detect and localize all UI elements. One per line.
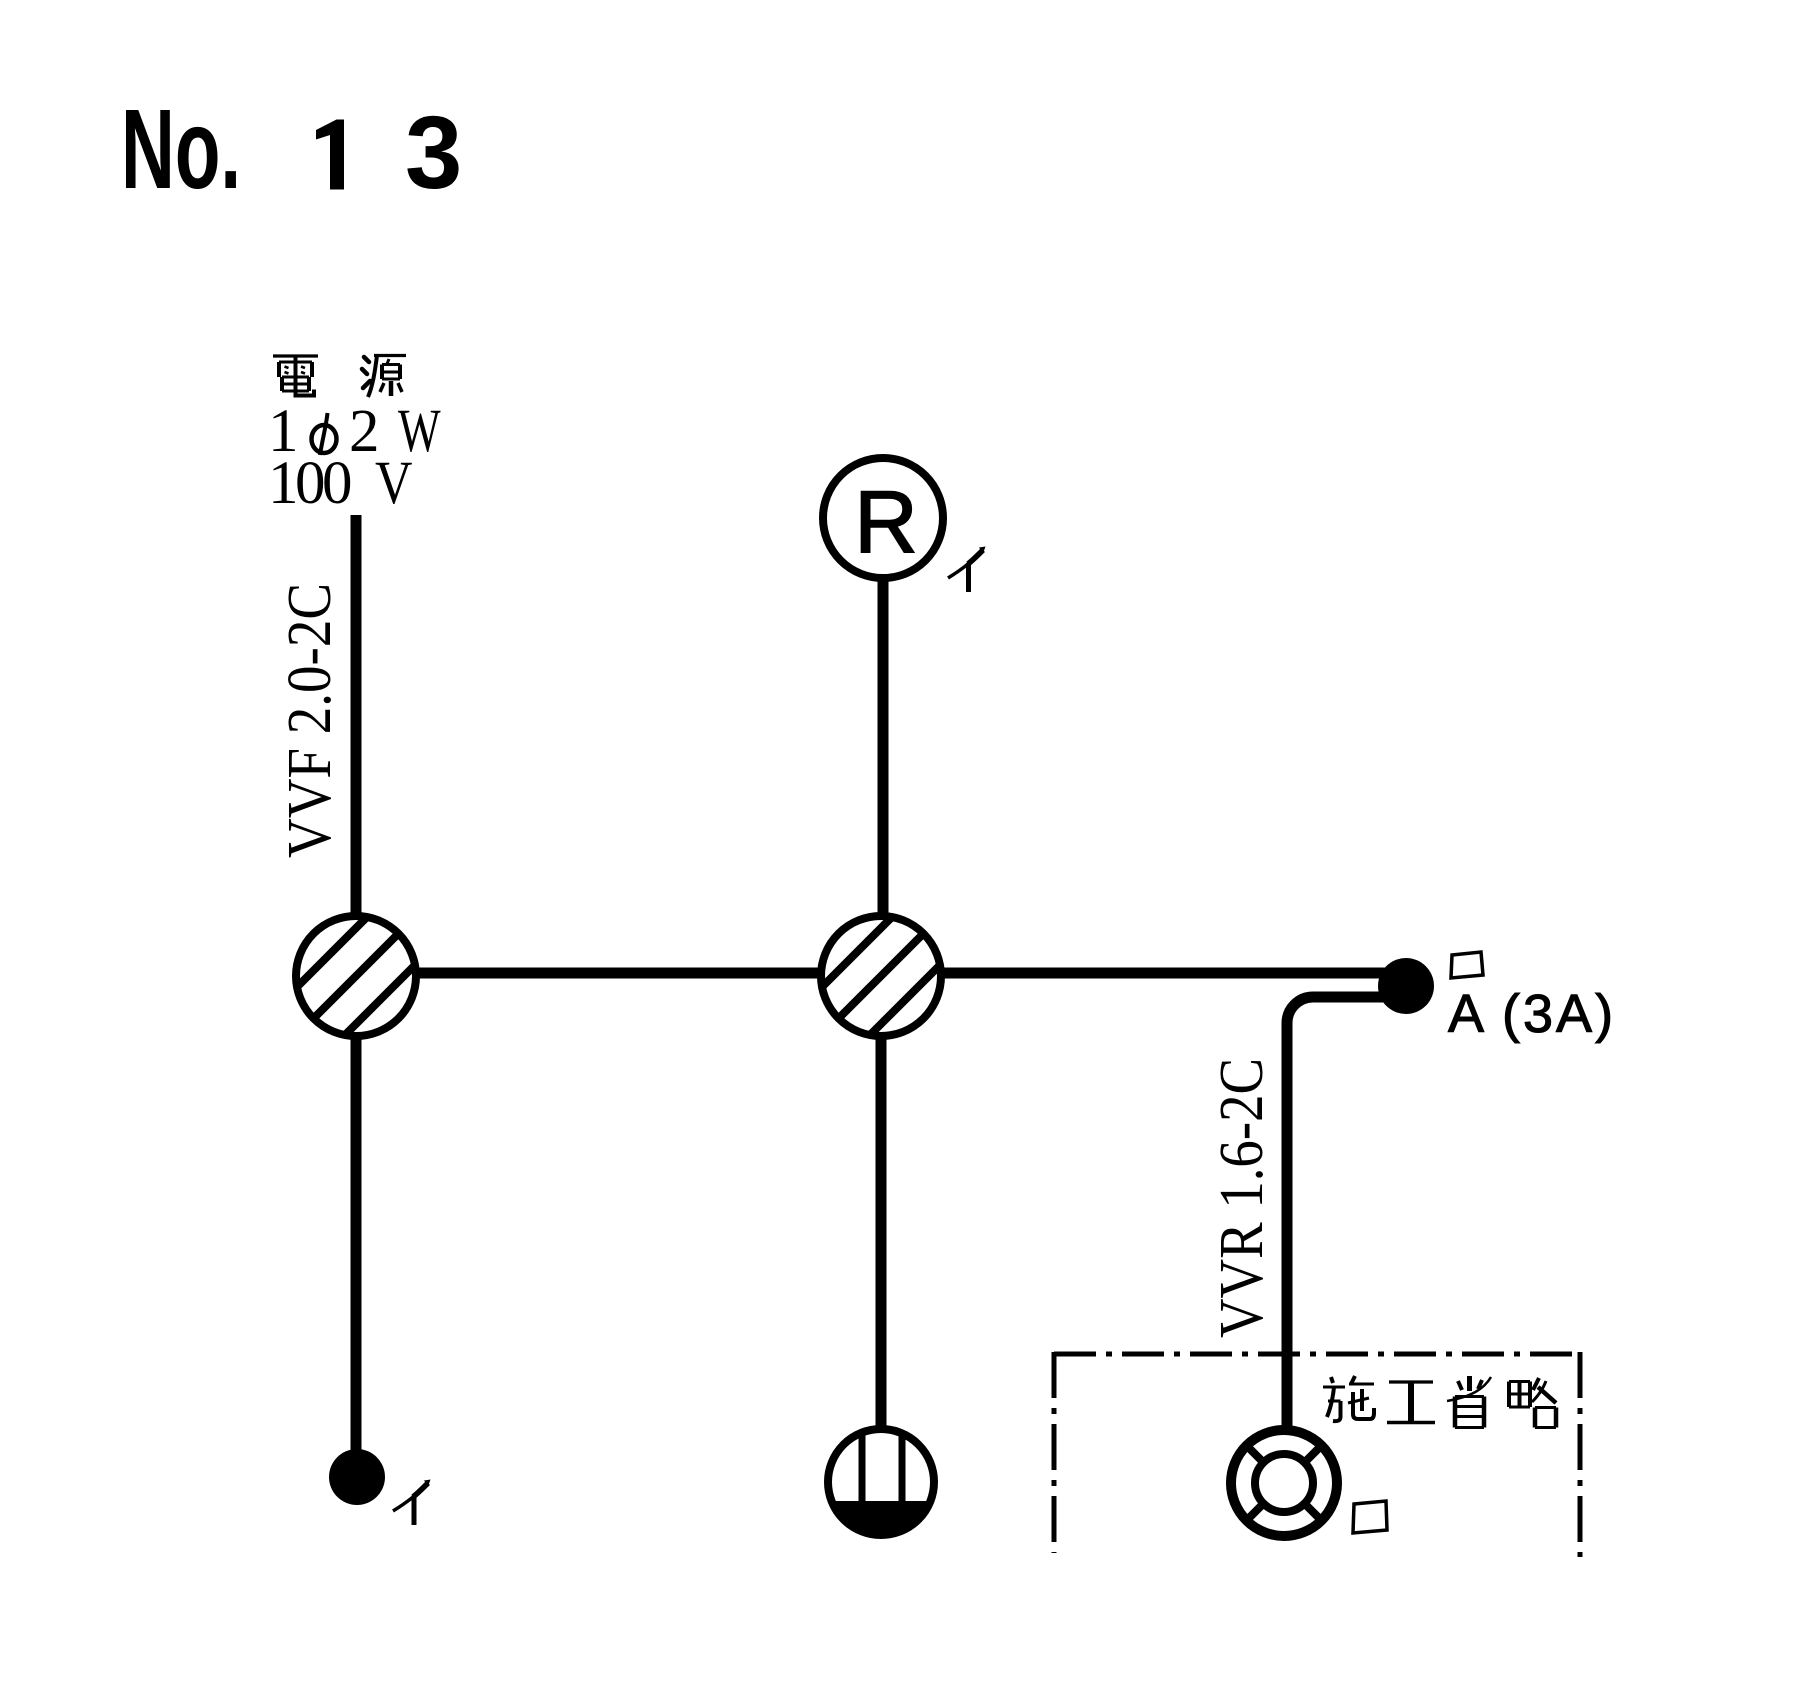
svg-text:0: 0 xyxy=(295,450,326,517)
svg-text:3: 3 xyxy=(405,95,462,210)
kanji 施 xyxy=(1323,1376,1374,1421)
svg-text:R: R xyxy=(854,472,918,571)
svg-text:0: 0 xyxy=(322,450,353,517)
dot ロ (wire end) xyxy=(1378,958,1434,1014)
wire: R lamp to J2 vertical xyxy=(878,578,889,918)
label ロ at receptacle xyxy=(1353,1501,1387,1533)
kanji 略 xyxy=(1509,1378,1556,1428)
title No.13 xyxy=(121,86,462,212)
svg-text:No.: No. xyxy=(121,86,241,212)
switch イ (black dot) xyxy=(329,1449,385,1505)
wire: power feed vertical xyxy=(351,515,362,920)
wire: J1 to switch イ vertical xyxy=(351,1032,362,1455)
ceiling light (circle, two bars, filled bottom segment) xyxy=(828,1425,934,1541)
svg-text:1: 1 xyxy=(268,450,299,517)
lamp receptacle ロ (double circle with spokes) xyxy=(1231,1430,1337,1536)
wire: branch VVR with rounded corner to receptacle xyxy=(1287,997,1398,1429)
kanji 源 xyxy=(362,356,406,398)
text 施工省略 xyxy=(1323,1376,1556,1428)
label イ at switch xyxy=(393,1480,431,1526)
kanji 電 xyxy=(273,356,318,396)
wire: J1 to J2 horizontal xyxy=(356,968,881,979)
label ロ at dot xyxy=(1451,952,1483,978)
dash-dot boundary box 施工省略 xyxy=(1054,1352,1580,1357)
kanji 省 xyxy=(1447,1376,1491,1428)
power source label 電源 1φ2W 100V xyxy=(268,356,441,518)
lamp R (circle with R) xyxy=(823,458,943,578)
svg-text:V: V xyxy=(375,450,413,517)
svg-text:VVR 1.6-2C: VVR 1.6-2C xyxy=(1208,1058,1276,1338)
kanji 工 xyxy=(1387,1382,1435,1423)
junction box J2 (hatched circle) xyxy=(797,892,965,1060)
label イ at lamp R xyxy=(948,547,986,593)
junction box J1 (hatched circle) xyxy=(272,892,440,1060)
wire: J2 to ceiling light vertical xyxy=(876,1036,887,1432)
wire: J2 to dot ロ horizontal xyxy=(881,968,1390,979)
svg-text:A (3A): A (3A) xyxy=(1448,984,1616,1044)
svg-text:VVF 2.0-2C: VVF 2.0-2C xyxy=(276,583,344,858)
